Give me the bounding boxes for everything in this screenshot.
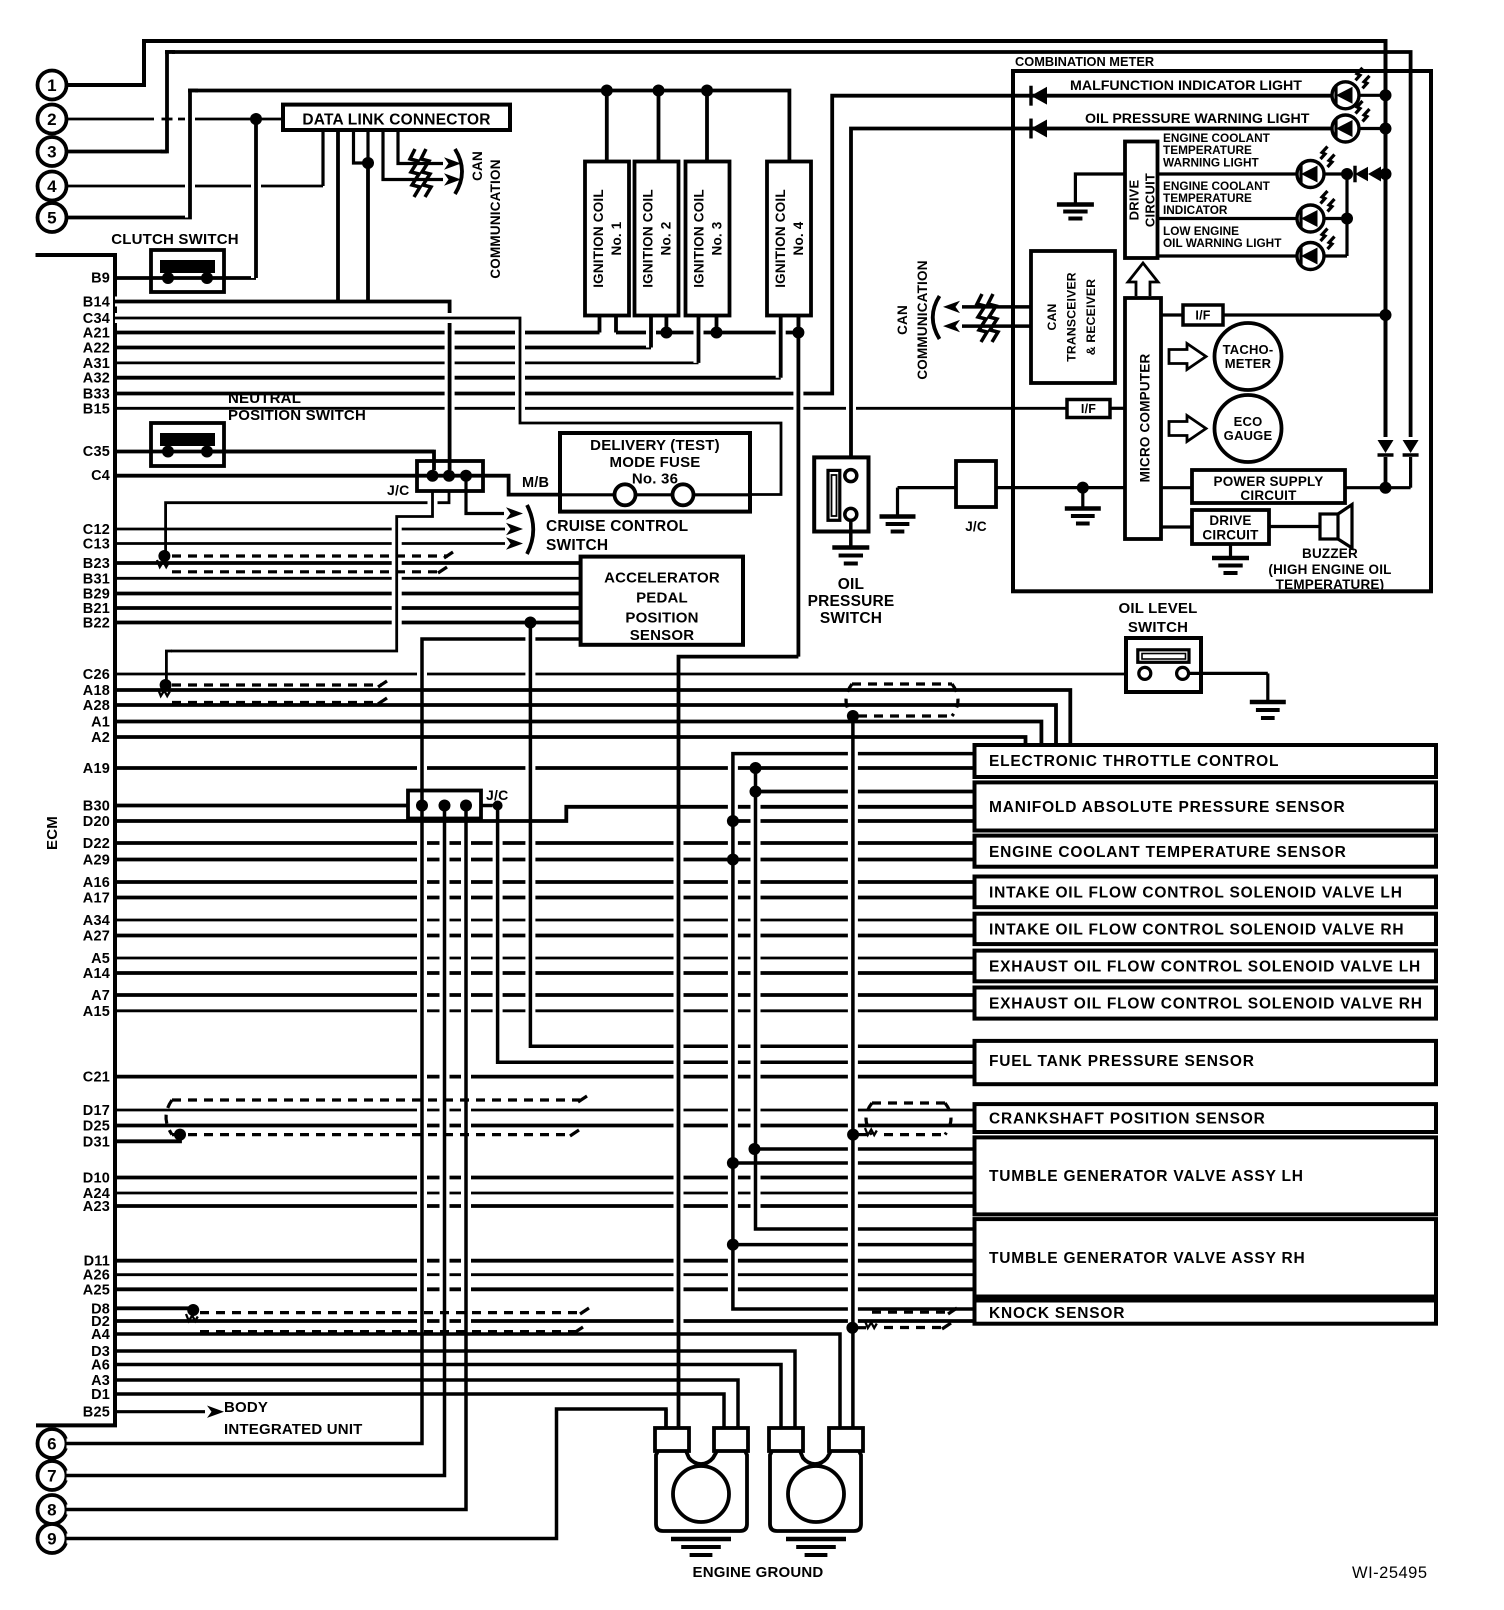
- wire row A29: [83, 853, 733, 869]
- wire row A22: [83, 341, 651, 357]
- wire row A24: [83, 1186, 975, 1202]
- wire coil2 pinA: [646, 316, 656, 348]
- engine coolant temperature warning light: [1158, 131, 1392, 188]
- svg-text:C35: C35: [83, 444, 110, 460]
- wire coil3 top: [701, 85, 713, 162]
- svg-text:ENGINE COOLANT TEMPERATURE SEN: ENGINE COOLANT TEMPERATURE SENSOR: [989, 844, 1347, 861]
- shield A18/A28 right oval: [846, 684, 958, 722]
- wire connector 7 to J/C3: [67, 806, 445, 1476]
- wire row A26: [83, 1268, 975, 1284]
- svg-text:No. 3: No. 3: [710, 221, 725, 255]
- wire circle3 to combination meter (battery line): [67, 52, 1411, 437]
- CAN bracket meter: [933, 296, 940, 339]
- svg-text:SWITCH: SWITCH: [546, 537, 608, 554]
- pin label D20: [83, 814, 110, 830]
- wire row A25: [83, 1282, 975, 1298]
- svg-text:A23: A23: [83, 1199, 110, 1215]
- svg-text:B31: B31: [83, 571, 110, 587]
- svg-text:No. 1: No. 1: [609, 221, 624, 255]
- junction connector J/C1: [387, 461, 483, 498]
- wire coil2 top: [653, 85, 665, 162]
- ignition coil No.2: [635, 162, 679, 316]
- diode at battery feed: [1403, 440, 1419, 488]
- svg-text:POWER SUPPLY: POWER SUPPLY: [1214, 474, 1324, 489]
- svg-text:D8: D8: [91, 1301, 110, 1317]
- node circle 5: [38, 203, 67, 232]
- wire A1 to electronic throttle control: [115, 722, 1041, 746]
- pin label A4: [91, 1327, 110, 1343]
- exhaust oil flow control solenoid valve LH box: [975, 951, 1437, 982]
- svg-text:COMMUNICATION: COMMUNICATION: [488, 159, 503, 278]
- drive circuit up arrow: [1128, 263, 1158, 296]
- engine ground right connector: [769, 1428, 863, 1531]
- svg-text:C4: C4: [91, 468, 110, 484]
- svg-text:A32: A32: [83, 371, 110, 387]
- wire row C12: [83, 522, 505, 538]
- svg-text:CRUISE CONTROL: CRUISE CONTROL: [546, 518, 688, 535]
- label WI-25495: [1352, 1564, 1428, 1582]
- micro computer box: [1125, 298, 1161, 539]
- wire C34 to delivery fuse: [115, 318, 781, 495]
- wire tumble LH pin2: [733, 1161, 975, 1165]
- pin label C34: [83, 311, 110, 327]
- svg-text:COMMUNICATION: COMMUNICATION: [915, 260, 930, 379]
- pin label A6: [91, 1358, 110, 1374]
- wire neutral switch to J/C1: [213, 452, 434, 471]
- svg-text:INTAKE OIL FLOW CONTROL SOLENO: INTAKE OIL FLOW CONTROL SOLENOID VALVE L…: [989, 885, 1403, 902]
- shield B23/B31 twisted pair: [157, 550, 453, 573]
- shield D8/D2 twisted pair: [186, 1304, 589, 1333]
- svg-text:MANIFOLD ABSOLUTE PRESSURE SEN: MANIFOLD ABSOLUTE PRESSURE SENSOR: [989, 799, 1346, 816]
- ECM boundary: [36, 255, 116, 1425]
- wire fuel tank sensor pin2 horizontal: [498, 1060, 975, 1064]
- oil pressure warning light: [1013, 101, 1392, 142]
- svg-text:TEMPERATURE): TEMPERATURE): [1276, 577, 1385, 592]
- svg-text:DRIVE: DRIVE: [1209, 513, 1251, 528]
- drive circuit 1 box: [1125, 142, 1158, 259]
- svg-text:OIL LEVEL: OIL LEVEL: [1118, 600, 1197, 617]
- wire shield ground bus x853 to engine ground: [848, 716, 858, 1428]
- svg-text:FUEL TANK PRESSURE SENSOR: FUEL TANK PRESSURE SENSOR: [989, 1053, 1255, 1070]
- exhaust oil flow control solenoid valve RH box: [975, 988, 1437, 1019]
- svg-text:CIRCUIT: CIRCUIT: [1143, 173, 1158, 227]
- shield C26/A18 left twisted pair: [158, 679, 387, 704]
- wire J/C3 to pin2 wire: [481, 804, 498, 808]
- wire manifold sensor pin1: [756, 790, 975, 794]
- svg-text:A34: A34: [83, 913, 110, 929]
- svg-text:1: 1: [47, 76, 57, 95]
- svg-text:CIRCUIT: CIRCUIT: [1202, 528, 1259, 543]
- wire coil4 pinA: [776, 316, 786, 378]
- wire row D2: [91, 1314, 975, 1330]
- wire tumble RH pin2: [733, 1243, 975, 1247]
- svg-text:OIL WARNING LIGHT: OIL WARNING LIGHT: [1163, 236, 1282, 250]
- wire D1 to engine ground: [115, 1394, 724, 1428]
- wire D31 to shield: [115, 1135, 180, 1142]
- wire row D17: [83, 1103, 975, 1119]
- wire row C26: [83, 667, 1140, 683]
- wire B25 to body integrated unit: [115, 1399, 363, 1438]
- eco gauge: [1169, 395, 1282, 462]
- oil level switch: [1118, 600, 1267, 700]
- svg-text:B30: B30: [83, 799, 110, 815]
- wire connector 9 to engine ground: [67, 1409, 667, 1539]
- svg-text:TRANSCEIVER: TRANSCEIVER: [1065, 272, 1079, 362]
- svg-text:C34: C34: [83, 311, 110, 327]
- svg-text:A18: A18: [83, 683, 110, 699]
- svg-text:NEUTRAL: NEUTRAL: [228, 390, 301, 407]
- cruise arrow C13: [506, 537, 523, 549]
- svg-text:INTEGRATED UNIT: INTEGRATED UNIT: [224, 1421, 363, 1438]
- wire coil3 pinA: [694, 316, 704, 363]
- junction connector J/C2 meter: [898, 461, 1126, 534]
- buzzer: [1268, 505, 1391, 593]
- svg-text:DELIVERY (TEST): DELIVERY (TEST): [590, 437, 720, 454]
- knock sensor box: [975, 1301, 1437, 1324]
- wire J/C3 to fuel tank pressure sensor: [493, 801, 505, 1063]
- data link connector DLC: [283, 105, 510, 302]
- wire vertical x167 halo: [161, 52, 176, 152]
- svg-text:2: 2: [47, 110, 57, 129]
- wire circle2 to data link connector: [67, 118, 284, 121]
- svg-text:A28: A28: [83, 698, 110, 714]
- svg-text:A31: A31: [83, 356, 110, 372]
- wire coil1 pinA: [598, 316, 602, 333]
- svg-text:SWITCH: SWITCH: [820, 610, 882, 627]
- node circle 7: [38, 1461, 67, 1490]
- wire D20 jog to manifold sensor: [115, 807, 975, 821]
- svg-text:A4: A4: [91, 1327, 110, 1343]
- wire row D10: [83, 1171, 975, 1187]
- svg-text:MALFUNCTION INDICATOR LIGHT: MALFUNCTION INDICATOR LIGHT: [1070, 78, 1302, 94]
- oil level switch ground: [1250, 702, 1286, 718]
- label CAN COMMUNICATION (meter): [895, 260, 930, 379]
- wire circle5 to ignition coils supply: [67, 91, 790, 218]
- node circle 4: [38, 172, 67, 201]
- svg-text:A14: A14: [83, 966, 110, 982]
- pin label B25: [83, 1405, 110, 1421]
- wire row B31: [83, 571, 581, 587]
- wire 5V reference bus x755: [750, 762, 975, 1229]
- tachometer: [1169, 323, 1282, 390]
- wire row C4: [91, 468, 560, 494]
- svg-text:A27: A27: [83, 929, 110, 945]
- svg-text:KNOCK SENSOR: KNOCK SENSOR: [989, 1305, 1125, 1322]
- svg-text:MODE FUSE: MODE FUSE: [610, 454, 701, 471]
- interface I/F 1: [1161, 305, 1392, 325]
- svg-text:POSITION: POSITION: [625, 610, 698, 627]
- wire ignition coil ground bus to engine ground: [616, 316, 804, 1429]
- svg-text:ECO: ECO: [1234, 414, 1263, 429]
- CAN interference mark DLC: [410, 149, 431, 197]
- combination meter box: [1013, 71, 1431, 591]
- crankshaft position sensor box: [975, 1104, 1437, 1132]
- svg-text:A17: A17: [83, 891, 110, 907]
- pin label D8: [91, 1301, 110, 1317]
- pin label D1: [91, 1387, 110, 1403]
- svg-text:CAN: CAN: [895, 305, 910, 335]
- wire oil pressure warning light to oil pressure switch: [851, 129, 1332, 470]
- tumble generator valve assy LH box: [975, 1137, 1437, 1214]
- svg-text:COMBINATION METER: COMBINATION METER: [1015, 54, 1154, 69]
- cruise switch bracket: [527, 505, 533, 554]
- svg-text:INTAKE OIL FLOW CONTROL SOLENO: INTAKE OIL FLOW CONTROL SOLENOID VALVE R…: [989, 922, 1404, 939]
- wire circle1 to combination meter (ignition line): [67, 41, 1386, 437]
- svg-text:MICRO COMPUTER: MICRO COMPUTER: [1138, 354, 1153, 483]
- svg-text:A29: A29: [83, 853, 110, 869]
- svg-text:A26: A26: [83, 1268, 110, 1284]
- ignition coil No.3: [686, 162, 730, 316]
- svg-text:ECM: ECM: [44, 816, 61, 850]
- wire row A23: [83, 1199, 975, 1215]
- wire B33 to malfunction indicator light: [825, 96, 1332, 394]
- node circle 8: [38, 1495, 67, 1524]
- svg-text:7: 7: [47, 1467, 57, 1486]
- wire B14/DLC to J/C1: [115, 302, 450, 471]
- wire row B30: [83, 799, 408, 815]
- svg-text:WARNING LIGHT: WARNING LIGHT: [1163, 156, 1259, 170]
- low engine oil warning light: [1158, 224, 1348, 270]
- pin label A1: [91, 715, 110, 731]
- engine ground right symbol: [786, 1539, 846, 1555]
- manifold absolute pressure sensor box: [975, 782, 1437, 830]
- intake oil flow control solenoid valve LH box: [975, 877, 1437, 908]
- svg-text:DATA LINK CONNECTOR: DATA LINK CONNECTOR: [302, 112, 490, 129]
- svg-text:TUMBLE GENERATOR VALVE ASSY LH: TUMBLE GENERATOR VALVE ASSY LH: [989, 1168, 1304, 1185]
- ignition coil No.4: [767, 162, 811, 316]
- wire row B15: [83, 401, 1067, 417]
- svg-text:M/B: M/B: [522, 475, 549, 491]
- node circle 2: [38, 105, 67, 134]
- label CAN COMMUNICATION (DLC): [470, 151, 503, 279]
- CAN interference mark meter: [977, 294, 998, 342]
- svg-text:SWITCH: SWITCH: [1128, 619, 1188, 636]
- wire vertical x190 halo: [188, 91, 198, 218]
- svg-text:D20: D20: [83, 814, 110, 830]
- wire row A31: [83, 356, 699, 372]
- svg-text:IGNITION COIL: IGNITION COIL: [591, 189, 606, 288]
- svg-text:EXHAUST OIL FLOW CONTROL SOLEN: EXHAUST OIL FLOW CONTROL SOLENOID VALVE …: [989, 959, 1421, 976]
- interface I/F 2: [1067, 400, 1125, 418]
- svg-text:POSITION SWITCH: POSITION SWITCH: [228, 407, 366, 424]
- wire row C13: [83, 537, 505, 553]
- wire row B9: [91, 271, 256, 287]
- wire row D11: [84, 1254, 975, 1270]
- wire row B14: [83, 295, 450, 311]
- wire row A7: [91, 988, 974, 1004]
- svg-text:IGNITION COIL: IGNITION COIL: [692, 189, 707, 288]
- svg-text:5: 5: [47, 209, 57, 228]
- wire row D22: [83, 836, 975, 852]
- svg-text:CAN: CAN: [1045, 303, 1059, 330]
- label CRUISE CONTROL SWITCH: [546, 518, 688, 554]
- clutch switch: [111, 231, 239, 292]
- shield D17/D25 left twisted pair: [166, 1096, 587, 1141]
- engine coolant temperature sensor box: [975, 836, 1437, 867]
- svg-text:D10: D10: [83, 1171, 110, 1187]
- pin label A18: [83, 683, 110, 699]
- wire tumble LH pin1: [749, 1143, 975, 1155]
- fuel tank pressure sensor box: [975, 1041, 1437, 1084]
- pin label A28: [83, 698, 110, 714]
- pin label D31: [83, 1134, 110, 1150]
- label M/B: [522, 475, 549, 491]
- wire A6 to engine ground: [115, 1365, 781, 1429]
- svg-text:A7: A7: [91, 988, 110, 1004]
- ignition coil No.1: [585, 162, 629, 316]
- wire row A15: [83, 1004, 975, 1020]
- svg-text:INDICATOR: INDICATOR: [1163, 203, 1228, 217]
- neutral position switch: [151, 390, 366, 466]
- svg-text:METER: METER: [1225, 356, 1272, 371]
- wire coil1 top: [601, 85, 613, 162]
- svg-text:BODY: BODY: [224, 1399, 268, 1416]
- drive circuit ground: [1057, 174, 1125, 219]
- engine coolant temperature indicator: [1158, 174, 1354, 256]
- diode at ignition feed: [1378, 440, 1394, 488]
- svg-text:OIL: OIL: [838, 576, 864, 593]
- svg-text:PEDAL: PEDAL: [636, 590, 688, 607]
- svg-text:D25: D25: [83, 1119, 110, 1135]
- wire J/C1 pin1 to C26 shield: [166, 491, 432, 680]
- wire J/C1 pin3 to cruise switch: [466, 481, 523, 520]
- svg-text:TACHO-: TACHO-: [1223, 342, 1274, 357]
- wire row A21: [83, 326, 600, 342]
- svg-text:9: 9: [47, 1530, 57, 1549]
- node circle 1: [38, 71, 67, 100]
- svg-text:B23: B23: [83, 556, 110, 572]
- wire row B29: [83, 587, 581, 603]
- tumble generator valve assy RH box: [975, 1219, 1437, 1296]
- wire row A5: [91, 951, 974, 967]
- wire accelerator sensor pin to J/C3 and connector 6: [67, 639, 581, 1444]
- svg-text:CRANKSHAFT POSITION SENSOR: CRANKSHAFT POSITION SENSOR: [989, 1111, 1266, 1128]
- label ENGINE GROUND: [693, 1564, 824, 1581]
- svg-text:B25: B25: [83, 1405, 110, 1421]
- svg-text:IGNITION COIL: IGNITION COIL: [773, 189, 788, 288]
- pin label A2: [91, 730, 110, 746]
- wire A18 to electronic throttle control: [115, 690, 1070, 745]
- engine ground left symbol: [671, 1539, 731, 1555]
- svg-text:DRIVE: DRIVE: [1127, 180, 1142, 221]
- wire row A17: [83, 891, 975, 907]
- wire D3 to engine ground: [115, 1351, 795, 1428]
- wire row B33: [83, 387, 834, 403]
- shield D17/D25 right oval: [847, 1103, 951, 1141]
- svg-text:No. 4: No. 4: [791, 221, 806, 255]
- svg-text:4: 4: [47, 177, 57, 196]
- svg-text:TUMBLE GENERATOR VALVE ASSY RH: TUMBLE GENERATOR VALVE ASSY RH: [989, 1250, 1306, 1267]
- svg-text:CAN: CAN: [470, 151, 485, 181]
- svg-text:B33: B33: [83, 387, 110, 403]
- svg-text:I/F: I/F: [1081, 402, 1096, 416]
- wire D8 row: [115, 1306, 193, 1310]
- svg-text:J/C: J/C: [965, 519, 987, 534]
- wire B22 branch to fuel tank pressure sensor: [524, 617, 538, 1047]
- svg-text:(HIGH ENGINE OIL: (HIGH ENGINE OIL: [1268, 562, 1391, 577]
- svg-text:GAUGE: GAUGE: [1224, 428, 1273, 443]
- node circle 3: [38, 137, 67, 166]
- svg-text:A1: A1: [91, 715, 110, 731]
- malfunction indicator light: [1013, 68, 1392, 109]
- svg-text:CLUTCH SWITCH: CLUTCH SWITCH: [111, 231, 239, 248]
- svg-text:A16: A16: [83, 875, 110, 891]
- pin label A3: [91, 1373, 110, 1389]
- electronic throttle control box: [975, 745, 1437, 777]
- pin label D3: [91, 1344, 110, 1360]
- svg-text:J/C: J/C: [387, 482, 409, 498]
- wire connector 8 to J/C3: [67, 806, 467, 1510]
- svg-text:D17: D17: [83, 1103, 110, 1119]
- oil pressure switch: [808, 457, 895, 627]
- svg-text:J/C: J/C: [486, 787, 508, 803]
- wire A2 to electronic throttle control: [115, 737, 1026, 745]
- svg-text:BUZZER: BUZZER: [1302, 546, 1358, 561]
- svg-text:ENGINE GROUND: ENGINE GROUND: [693, 1564, 824, 1581]
- wire A3 to engine ground: [115, 1380, 738, 1428]
- svg-text:B9: B9: [91, 271, 110, 287]
- svg-text:3: 3: [47, 143, 57, 162]
- svg-text:No. 36: No. 36: [632, 471, 678, 488]
- CAN bracket DLC: [455, 149, 462, 194]
- wire sensor ground bus x733: [727, 754, 975, 1309]
- svg-text:SENSOR: SENSOR: [630, 627, 695, 644]
- svg-text:6: 6: [47, 1435, 57, 1454]
- wire row C35: [83, 444, 434, 460]
- CAN wires to meter: [943, 301, 1031, 333]
- svg-text:I/F: I/F: [1195, 309, 1210, 323]
- node circle 6: [38, 1429, 67, 1458]
- wire row C21: [83, 1070, 975, 1086]
- wire J/C1 pin2 to B23 shield: [166, 491, 449, 551]
- label COMBINATION METER: [1015, 54, 1154, 69]
- svg-text:A6: A6: [91, 1358, 110, 1374]
- wire row B23: [83, 556, 581, 572]
- power supply circuit box: [1161, 470, 1411, 503]
- wire row A27: [83, 929, 975, 945]
- svg-text:A15: A15: [83, 1004, 110, 1020]
- node circle 9: [38, 1524, 67, 1553]
- svg-text:ELECTRONIC THROTTLE CONTROL: ELECTRONIC THROTTLE CONTROL: [989, 753, 1279, 770]
- delivery test mode fuse No.36: [560, 433, 750, 512]
- shield knock sensor twisted pair: [846, 1308, 957, 1334]
- wire coil4 pinB: [797, 316, 801, 333]
- CAN transceiver and receiver box: [1031, 251, 1115, 383]
- wire row A34: [83, 913, 975, 929]
- ground at micro computer: [1065, 509, 1101, 524]
- svg-text:A5: A5: [91, 951, 110, 967]
- wire circle4 to data link connector: [67, 130, 324, 186]
- svg-text:8: 8: [47, 1501, 57, 1520]
- cruise arrow C12: [506, 523, 523, 535]
- wire coolant sensor pin2: [733, 858, 975, 862]
- svg-text:B14: B14: [83, 295, 110, 311]
- wire row D25: [83, 1119, 975, 1135]
- svg-text:EXHAUST OIL FLOW CONTROL SOLEN: EXHAUST OIL FLOW CONTROL SOLENOID VALVE …: [989, 996, 1423, 1013]
- svg-text:A21: A21: [83, 326, 110, 342]
- svg-text:B22: B22: [83, 616, 110, 632]
- svg-text:D22: D22: [83, 836, 110, 852]
- wire coil3 pinB: [715, 316, 719, 333]
- svg-text:No. 2: No. 2: [659, 221, 674, 255]
- svg-text:PRESSURE: PRESSURE: [808, 593, 895, 610]
- drive circuit 2 box: [1161, 510, 1269, 544]
- svg-text:C13: C13: [83, 537, 110, 553]
- wire row B22: [83, 616, 581, 632]
- wire clutch to DLC line: [250, 113, 262, 278]
- wire row B21: [83, 601, 581, 617]
- wire row A14: [83, 966, 975, 982]
